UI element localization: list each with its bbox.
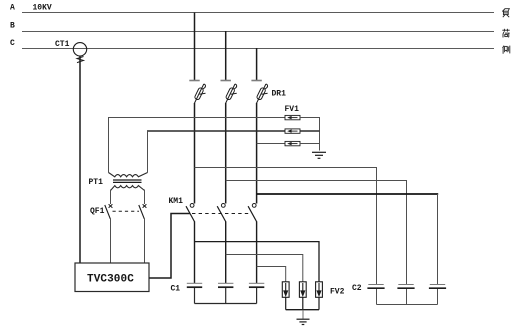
wire phase B drop — [225, 31, 227, 81]
wire QF1 pole2 to TVC300C — [144, 219, 146, 264]
wire phase A drop — [194, 13, 196, 81]
wire C2 a bottom — [376, 289, 378, 305]
wire FV1 b to earth bus — [300, 130, 320, 132]
surge arrester FV2 a — [282, 282, 289, 298]
wire bus phase C — [22, 48, 494, 50]
wire FV2 ground stub — [302, 310, 304, 319]
label 侧 — [503, 46, 510, 54]
fuse cutout DR1 pole A — [194, 84, 205, 104]
wire phase A vertical — [194, 103, 196, 204]
QF1 pole 1 blade — [105, 205, 111, 219]
wire PT1 secondary left lead — [110, 190, 112, 205]
fuse cutout DR1 pole B — [225, 84, 236, 104]
wire C2 tap phase A — [195, 168, 377, 285]
wire PT1 secondary right lead — [144, 190, 146, 205]
KM1 pole 2 blade — [217, 206, 226, 222]
svg-text:TVC300C: TVC300C — [87, 274, 134, 286]
wire C2 b bottom — [406, 289, 408, 305]
svg-text:DR1: DR1 — [272, 90, 287, 99]
capacitor C1 c — [249, 283, 264, 287]
label 负 (load) — [502, 9, 509, 18]
svg-text:C: C — [10, 39, 15, 48]
KM1 pole 1 blade — [186, 206, 195, 222]
wire FV2 tap phase B — [226, 255, 303, 282]
capacitor C2 b — [397, 285, 414, 289]
capacitor C2 c — [429, 285, 446, 289]
wire phase B vertical — [225, 103, 227, 204]
surge arrester FV1 a — [285, 115, 300, 119]
wire CT1 secondary drop — [79, 56, 81, 263]
ground FV1 — [312, 152, 326, 158]
svg-text:10KV: 10KV — [33, 4, 52, 13]
svg-text:C2: C2 — [352, 284, 362, 293]
PT1 core — [113, 179, 142, 181]
capacitor C2 a — [367, 285, 384, 289]
wire KM1 pole2 to C1 — [225, 222, 227, 284]
svg-text:PT1: PT1 — [89, 178, 104, 187]
QF1 linkage dashed — [113, 210, 140, 212]
wire KM1 pole3 to C1 — [256, 222, 258, 284]
wire FV2 a to bus — [285, 297, 287, 309]
ground FV2 — [297, 319, 310, 324]
KM1 pole 3 fixed contact — [252, 204, 256, 208]
KM1 pole 3 blade — [248, 206, 257, 222]
surge arrester FV2 c — [316, 282, 323, 298]
capacitor C1 b — [218, 283, 233, 287]
svg-text:A: A — [10, 4, 15, 13]
QF1 pole 1 contact x — [109, 204, 113, 208]
svg-text:QF1: QF1 — [90, 207, 105, 216]
wire FV2 tap phase A — [195, 242, 320, 282]
wire FV1 c to earth bus — [300, 143, 319, 145]
wire FV1 common earth bus — [300, 118, 320, 151]
wire QF1 pole1 to TVC300C — [110, 219, 112, 264]
PT1 primary winding — [109, 173, 148, 177]
svg-text:C1: C1 — [171, 285, 181, 294]
wire KM1 pole1 to C1 — [194, 222, 196, 284]
KM1 linkage dashed — [192, 213, 251, 215]
wire PT1 primary left lead — [108, 118, 110, 173]
wire PT1 primary right lead — [147, 131, 149, 173]
wire FV1 tap phase C — [257, 143, 285, 145]
current transformer CT1 — [73, 43, 86, 56]
QF1 pole 2 contact x — [143, 204, 147, 208]
KM1 pole 1 fixed contact — [190, 204, 194, 208]
CT1 secondary zigzag mark — [77, 57, 84, 63]
wire bus phase B — [22, 31, 494, 33]
wire C2 bottom bus — [377, 304, 438, 306]
wire C2 c bottom — [437, 289, 439, 305]
surge arrester FV2 b — [299, 282, 306, 298]
node phase B fixed contact bar — [221, 80, 231, 82]
wire C1 a bottom — [194, 288, 196, 304]
wire FV2 c to bus — [318, 297, 320, 309]
controller TVC300C box — [75, 263, 149, 292]
wire C1 c bottom — [256, 288, 258, 304]
wire C2 c vertical — [437, 194, 439, 284]
wire FV2 tap phase C — [257, 267, 286, 282]
surge arrester FV1 b — [285, 129, 300, 133]
node phase A fixed contact bar — [189, 80, 199, 82]
fuse cutout DR1 pole C — [256, 84, 267, 104]
node phase C fixed contact bar — [251, 80, 261, 82]
svg-text:FV2: FV2 — [330, 288, 345, 297]
wire C2 tap phase C — [257, 193, 439, 195]
KM1 pole 2 fixed contact — [221, 204, 225, 208]
wire bus phase A — [22, 12, 494, 14]
wire TVC300C to KM1 linkage — [149, 214, 190, 279]
wire C1 b bottom — [225, 288, 227, 304]
wire FV1 tap phase B to PT1 right — [147, 130, 285, 132]
svg-text:FV1: FV1 — [285, 105, 300, 114]
svg-text:KM1: KM1 — [169, 197, 184, 206]
wire FV1 tap phase A to PT1 left — [108, 117, 285, 119]
wire phase C vertical — [256, 103, 258, 204]
wire C2 tap phase B — [226, 181, 407, 285]
svg-text:B: B — [10, 22, 15, 31]
PT1 secondary winding — [111, 186, 145, 191]
label 荷 — [502, 29, 509, 38]
svg-text:CT1: CT1 — [55, 40, 70, 49]
wire phase C drop — [256, 48, 258, 81]
QF1 pole 2 blade — [139, 205, 145, 219]
capacitor C1 a — [187, 283, 202, 287]
wire FV2 b to bus — [302, 297, 304, 309]
wire C1 bottom bus — [195, 303, 257, 305]
wire FV2 earth bus — [286, 309, 319, 311]
surge arrester FV1 c — [285, 141, 300, 145]
